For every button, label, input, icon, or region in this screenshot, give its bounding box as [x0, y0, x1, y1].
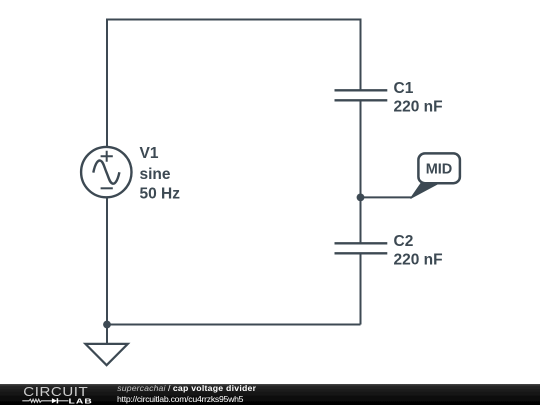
logo resistor zigzag: [22, 399, 52, 402]
node dot MID junction: [357, 194, 365, 202]
svg-text:LAB: LAB: [69, 397, 93, 405]
wire top: [107, 19, 361, 21]
wire bottom: [107, 324, 361, 326]
svg-text:50 Hz: 50 Hz: [140, 186, 181, 203]
label C2 220 nF: [394, 233, 443, 268]
junction dot ground node: [103, 321, 111, 329]
capacitor C1: [335, 90, 388, 100]
logo CIRCUIT text: [23, 384, 88, 399]
wire left lower: [106, 197, 108, 324]
footer title line: [117, 383, 256, 393]
wire right lower: [360, 254, 362, 325]
svg-text:C1: C1: [394, 80, 414, 97]
svg-text:C2: C2: [394, 233, 414, 250]
wire left upper: [106, 19, 108, 148]
capacitor C2: [335, 243, 388, 253]
logo LAB text: [69, 397, 93, 405]
footer url line: [117, 394, 244, 404]
wire right upper: [360, 19, 362, 91]
svg-text:220 nF: 220 nF: [394, 251, 443, 268]
svg-text:220 nF: 220 nF: [394, 98, 443, 115]
voltage source V1: [81, 147, 131, 197]
flag MID: [411, 153, 460, 198]
wire right middle: [360, 101, 362, 244]
label V1 sine 50 Hz: [140, 145, 181, 203]
svg-text:http://circuitlab.com/cu4rrzks: http://circuitlab.com/cu4rrzks95wh5: [117, 394, 244, 404]
svg-text:MID: MID: [426, 162, 453, 178]
footer bar: [0, 384, 540, 405]
ground: [85, 325, 127, 366]
label C1 220 nF: [394, 80, 443, 115]
wire MID stub: [361, 196, 413, 198]
svg-text:V1: V1: [140, 145, 159, 162]
logo diode: [52, 398, 69, 403]
svg-text:sine: sine: [140, 166, 171, 183]
svg-text:supercachai / cap voltage divi: supercachai / cap voltage divider: [117, 383, 256, 393]
